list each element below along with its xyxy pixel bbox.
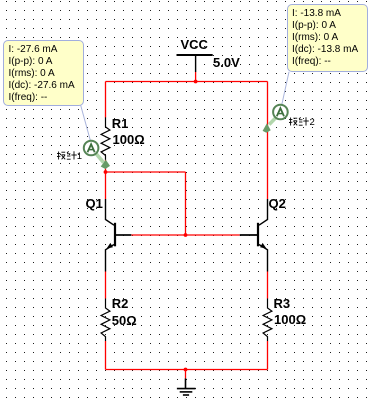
label Q2 [269, 197, 286, 210]
wire base rail [131, 234, 240, 236]
probe 2 arrow [263, 117, 277, 133]
label R2 [112, 297, 129, 310]
wire R1 bottom to node A [105, 160, 107, 172]
probe 1 arrow [96, 154, 110, 169]
wire top rail [106, 81, 268, 83]
probe 1 tooltip box [3, 40, 84, 106]
resistor R2 [101, 299, 110, 342]
node junction at VCC rail [194, 80, 198, 84]
svg-text:1: 1 [77, 151, 82, 162]
resistor R3 [263, 299, 272, 342]
transistor Q1 [106, 199, 132, 272]
label VCC [181, 38, 208, 51]
label 5.0V [213, 56, 240, 69]
probe 1 circle [84, 141, 99, 156]
node junction ground rail [184, 368, 188, 372]
label R1 [112, 117, 129, 130]
wire R3 bottom [267, 341, 269, 370]
wire node A to Q1 collector [105, 172, 107, 199]
wire Q2 emitter to R3 [267, 272, 269, 299]
node A junction under R1 [104, 170, 108, 174]
wire VCC red stub [195, 72, 197, 82]
probe 1 leader line [81, 105, 91, 140]
wire ground stub [185, 370, 187, 379]
transistor Q2 [240, 199, 268, 272]
wire left drop VCC to R1 [105, 82, 107, 118]
probe 2 leader line [282, 72, 289, 104]
ground [177, 378, 196, 395]
wire Q1 emitter to R2 [105, 272, 107, 299]
label R3 [274, 297, 291, 310]
label R2 value 50Ω [112, 314, 137, 327]
probe 2 tooltip box [287, 4, 369, 72]
wire node A to feedback corner [106, 171, 186, 173]
probe 2 circle [273, 105, 288, 120]
label R3 value 100Ω [274, 313, 306, 326]
wire bottom rail [106, 369, 268, 371]
wire R2 bottom [105, 341, 107, 370]
label R1 value 100Ω [113, 133, 145, 146]
wire right drop VCC to Q2 [267, 82, 269, 200]
power VCC symbol [177, 55, 213, 72]
svg-text:2: 2 [310, 117, 315, 128]
probe 2 label 探针2 glyphs [289, 118, 297, 126]
resistor R1 [101, 117, 110, 159]
node junction base rail [184, 233, 188, 237]
wire feedback drop [185, 172, 187, 235]
label Q1 [86, 197, 103, 210]
probe 1 label 探针1 glyphs [57, 152, 65, 160]
